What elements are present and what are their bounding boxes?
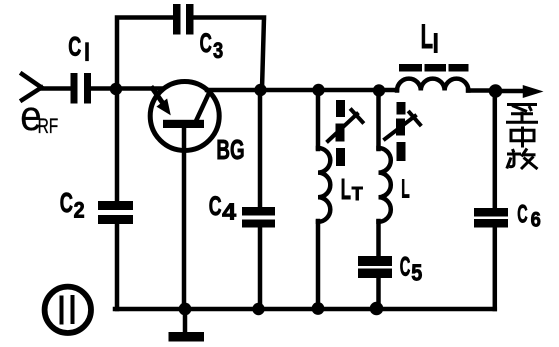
node C5 bottom junction <box>370 302 384 316</box>
inductor L1 <box>397 79 468 91</box>
node L top junction <box>373 84 385 96</box>
svg-text:5: 5 <box>411 259 422 285</box>
wire collector node down to C4 <box>258 90 263 207</box>
svg-text:4: 4 <box>222 199 236 225</box>
capacitor C3 <box>173 4 194 35</box>
wire LT to bottom rail <box>316 221 321 309</box>
wire transistor to collector node <box>207 88 397 93</box>
transistor BG circle <box>150 82 219 151</box>
label C2 <box>60 187 85 222</box>
svg-text:C: C <box>60 187 73 218</box>
svg-text:RF: RF <box>38 114 59 138</box>
node B (junction dot collector) <box>254 84 266 96</box>
capacitor C1 <box>71 73 92 104</box>
wire C6 branch upper <box>493 91 498 208</box>
stage number II circle <box>45 287 91 333</box>
svg-text:6: 6 <box>531 208 541 231</box>
L1 core (dashed bar) <box>399 64 469 72</box>
wire input to C1 <box>40 86 72 91</box>
svg-text:C: C <box>209 191 222 221</box>
capacitor C6 <box>474 208 508 228</box>
svg-text:BG: BG <box>216 134 244 165</box>
label C3 <box>200 28 224 63</box>
capacitor C2 <box>98 201 133 224</box>
label LT <box>341 174 364 206</box>
wire C2 to bottom rail <box>115 224 120 309</box>
wire bottom rail <box>115 307 495 312</box>
ground <box>169 309 205 342</box>
node ground junction <box>179 303 192 316</box>
node LT bottom junction <box>312 302 325 315</box>
label C5 <box>400 252 423 286</box>
wire top loop <box>117 18 264 90</box>
label L <box>401 174 409 204</box>
LT adjustable core (dashed bar) <box>336 100 346 166</box>
input terminal chevron <box>22 74 42 100</box>
transistor BG base bar <box>163 120 204 128</box>
node A (junction dot left) <box>110 83 122 95</box>
LT preset arrow <box>328 110 363 141</box>
svg-text:2: 2 <box>74 197 85 222</box>
svg-text:T: T <box>352 183 364 204</box>
label e_RF input signal <box>20 92 58 139</box>
svg-text:C: C <box>517 201 527 229</box>
label output text 至中放 (to IF amp) hand-drawn <box>506 105 538 170</box>
inductor LT <box>318 148 330 222</box>
wire L coil to C5 <box>376 221 381 256</box>
svg-text:L: L <box>401 174 409 204</box>
wire L branch upper <box>376 90 381 149</box>
wire LT branch upper <box>316 90 321 149</box>
svg-text:L: L <box>421 18 433 56</box>
label BG <box>216 134 244 165</box>
L preset arrow <box>385 113 420 140</box>
svg-text:L: L <box>341 174 351 206</box>
node output junction <box>489 84 503 98</box>
svg-text:C: C <box>68 31 81 61</box>
node LT top junction <box>312 84 324 96</box>
transistor BG collector line <box>196 92 210 121</box>
L adjustable core (dashed bar) <box>396 102 406 161</box>
wire left branch upper (node to C2) <box>115 89 120 201</box>
capacitor C5 <box>358 256 392 278</box>
svg-text:C: C <box>400 252 411 282</box>
wire C1 to base node <box>91 86 161 91</box>
label C4 <box>209 191 237 225</box>
svg-text:3: 3 <box>213 38 223 63</box>
wire C4 to bottom rail <box>258 228 263 310</box>
inductor L <box>379 148 391 222</box>
transistor BG emitter with arrow <box>153 89 170 114</box>
svg-text:C: C <box>200 28 212 58</box>
wire C6 to bottom rail <box>493 228 498 310</box>
node C4 bottom junction <box>252 303 264 315</box>
capacitor C4 <box>242 207 275 228</box>
wire output with arrow <box>502 86 541 97</box>
label L1 <box>421 18 438 56</box>
label C6 <box>517 201 541 232</box>
wire L1 to output node <box>468 88 489 93</box>
label C1 <box>68 31 89 61</box>
wire C5 to bottom rail <box>376 278 381 309</box>
wire base lead to ground rail <box>182 127 187 309</box>
